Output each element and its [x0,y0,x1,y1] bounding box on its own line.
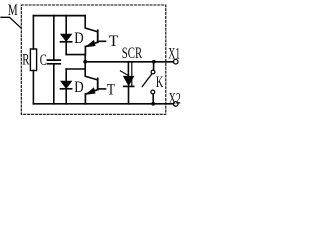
diode D2 wires [65,69,67,104]
diode D1 wires [65,16,67,55]
capacitor C plates [48,60,61,64]
wire lower pair top connector [66,68,85,70]
module boundary dashed box [21,5,166,114]
switch K blade [142,74,151,86]
junction K top dot [152,60,156,64]
junction K bottom dot [151,102,155,106]
switch K bottom wire [152,94,154,104]
wire top rail (node P) [33,15,85,17]
svg-text:T: T [109,33,119,50]
wire R branch top [32,16,34,49]
switch K top wire [153,62,155,70]
switch K lower contact [151,90,155,94]
transistor T2 base bar [97,78,99,89]
transistor T1 emitter [85,42,97,54]
thyristor SCR body [124,76,134,85]
diode D1 cathode bar [61,41,72,43]
diode D2 body [61,81,71,88]
wire bottom rail [33,103,173,105]
transistor T2 base lead [98,88,106,90]
svg-text:D: D [74,79,83,96]
wire C branch top [53,16,55,60]
terminal X1 circle [173,59,178,64]
transistor T2 collector [85,69,98,80]
svg-text:SCR: SCR [122,45,143,62]
thyristor SCR gate stub [120,71,128,75]
svg-text:D: D [74,30,83,47]
thyristor SCR cathode wire [128,87,130,104]
svg-text:X2: X2 [169,90,181,107]
svg-text:C: C [40,52,47,69]
transistor T1 collector [85,16,98,32]
label M leader line [1,17,21,28]
transistor T2 emitter [85,90,97,104]
svg-text:M: M [8,2,18,19]
junction mid node dot [83,60,87,64]
terminal X2 circle [173,102,178,107]
svg-text:X1: X1 [168,45,180,62]
thyristor SCR gate vertical [131,62,133,87]
transistor T1 base lead [98,40,106,42]
diode D2 cathode bar [61,88,72,90]
diode D1 body [61,34,71,41]
transistor T1 emitter arrowhead [86,41,95,47]
wire mid rail to X1 [85,61,173,63]
wire upper pair bottom connector [66,54,85,56]
wire R branch bottom [32,71,34,104]
switch K upper contact [151,70,155,74]
thyristor SCR cathode bar [124,85,134,87]
wire C branch bottom [53,65,55,104]
transistor T2 emitter arrowhead [86,88,95,94]
thyristor SCR anode wire [127,62,129,77]
wire mid node vertical [84,55,86,69]
svg-text:R: R [22,51,29,68]
resistor R body [30,49,36,71]
svg-text:T: T [107,82,115,99]
transistor T1 base bar [97,30,99,42]
svg-text:K: K [156,74,164,91]
